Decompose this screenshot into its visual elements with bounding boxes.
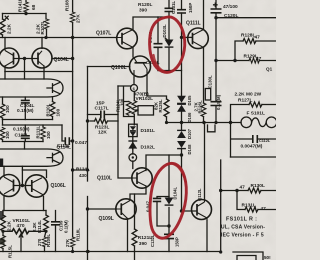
svg-text:Q104L: Q104L (54, 57, 69, 63)
wire bottom-right piece (233, 252, 263, 260)
wire ellipse2 diode column (168, 155, 170, 252)
wire bottom bus (0, 251, 221, 253)
svg-text:C117L: C117L (95, 106, 109, 112)
svg-text:Q109L: Q109L (99, 216, 114, 222)
transistor Q103 (0, 48, 19, 68)
wire Q109 emitter (127, 219, 129, 252)
transistor Q111L (188, 28, 209, 49)
resistor R141L (68) top edge (24, 2, 29, 12)
svg-text:2.2K: 2.2K (7, 23, 13, 34)
svg-text:R115L: R115L (8, 245, 13, 258)
svg-text:R125L: R125L (158, 99, 163, 112)
wire y=17.7 to right edge (216, 17, 276, 19)
wire emitter bus y=71.5 (5, 71, 73, 73)
wire vertical from top edge into R141L (25, 0, 27, 2)
wire base node to Q105/Q106 (14, 185, 32, 187)
resistor R125L 82K (164, 99, 169, 117)
wire bottom link y=70.5 (158, 70, 182, 72)
node Q111 base junction (180, 36, 183, 39)
resistor 2.2K lower-left (1, 215, 6, 231)
diode D108 (177, 141, 186, 149)
svg-text:Q1: Q1 (266, 67, 273, 72)
svg-text:0.15(M): 0.15(M) (13, 126, 30, 132)
wire Q104 collector stub (41, 38, 43, 49)
svg-text:C131L: C131L (171, 1, 176, 14)
wire hanging verticals to bottom edge (134, 252, 136, 260)
wire rail x=220.7 (220, 160, 222, 252)
resistor R111L 100 (41, 127, 46, 139)
svg-text:R130L: R130L (251, 183, 265, 189)
wire stubs into stadium1 top (5, 72, 44, 80)
wire stadium2 bottom to Q105/Q106 (3, 166, 5, 175)
resistor R114L 2.2K (44, 215, 49, 231)
node dot R127L at bus (229, 121, 232, 124)
svg-text:VR102L: VR102L (136, 96, 154, 102)
svg-text:R126L: R126L (198, 100, 203, 113)
wire R128L row (235, 41, 276, 61)
svg-text:R141L: R141L (17, 0, 22, 12)
transistor Q107L (117, 28, 138, 49)
wire R108L rail top (72, 0, 74, 12)
bottom-right small partial boxes (237, 256, 256, 260)
wire from base node down to stadium1 (24, 59, 26, 80)
capacitor C112L 0.0047M (253, 135, 257, 143)
wire pin6 to R124L (133, 92, 135, 101)
svg-text:Q112L: Q112L (197, 188, 202, 201)
rail x=72.6 full height (72, 22, 74, 251)
diode D103L tail mark (165, 38, 168, 41)
wire C109 lead (55, 211, 57, 252)
resistor 2.2K left (0, 19, 5, 35)
capacitor C130L 0.15M (211, 102, 222, 106)
resistor R123L 12K (95, 119, 108, 124)
svg-text:F S101L: F S101L (247, 110, 265, 116)
svg-text:R107L: R107L (40, 21, 45, 35)
wire Q111 base (182, 36, 192, 38)
capacitor C120L electrolytic (211, 9, 222, 13)
svg-text:D102L: D102L (141, 145, 155, 151)
left-edge scan marks (0, 159, 3, 167)
svg-text:150P: 150P (175, 237, 180, 247)
pin terminal 6 (131, 85, 138, 92)
node diode column crossings (180, 121, 183, 124)
wire R130L row (221, 190, 276, 192)
transistor element inside stadium 2 (47, 152, 60, 164)
wire Q111 emitter down to R126L (203, 48, 205, 104)
svg-text:150P: 150P (188, 3, 193, 13)
svg-text:D108: D108 (187, 144, 192, 155)
svg-text:R120L: R120L (138, 2, 152, 8)
wire R125L leads (147, 96, 167, 123)
svg-text:C114L: C114L (57, 143, 70, 148)
transistor Q106L (25, 175, 47, 197)
resistor R127L 2.2K MO 2W (249, 102, 262, 107)
wire D101-D102-pin-Q110 chain (132, 136, 134, 169)
node dot VR101L left (1, 230, 4, 233)
wire loop around R124L (118, 86, 134, 117)
wire D103L column (168, 0, 170, 71)
red ellipse 1 around D103L (150, 17, 185, 72)
node dot between bases (23, 57, 26, 60)
resistor R121L 390 (132, 229, 137, 246)
svg-text:R128L: R128L (241, 33, 255, 39)
wire base bus y=37.5 (0, 37, 117, 39)
wire lower 2.2K leads (3, 211, 46, 252)
transistor Q109L (116, 199, 136, 219)
svg-text:27K: 27K (65, 238, 70, 247)
wire Q108 emitter (146, 76, 148, 97)
diode D102L (128, 141, 137, 149)
resistor 100 (left, row1) (0, 104, 5, 118)
node dot R125L bottom (165, 121, 168, 124)
wire bus y=210.5 (3, 210, 46, 212)
svg-text:390: 390 (139, 7, 147, 13)
svg-text:47: 47 (255, 35, 261, 41)
wire Q110 emitter path (135, 186, 147, 252)
wire R127L left lead (231, 105, 250, 123)
capacitor 150P (177, 10, 186, 13)
wire R126L bottom (203, 117, 205, 123)
transistor element inside stadium 1 (47, 82, 60, 94)
wire Q107 emitter down to Q108 (132, 48, 134, 58)
svg-text:R110L: R110L (45, 103, 50, 116)
node dot rail at bottom bus (219, 250, 222, 253)
diode D103L (165, 40, 174, 48)
wire row2 bus y=144 (3, 141, 44, 143)
resistor R109L 270 (42, 237, 47, 247)
svg-text:R118L: R118L (76, 228, 81, 241)
wire C118L drop (157, 17, 159, 71)
svg-text:0.15(M): 0.15(M) (17, 108, 34, 114)
wire Q112 emitter down (206, 221, 208, 252)
wire rail x=88 (87, 67, 89, 182)
svg-text:C132L: C132L (150, 234, 155, 247)
svg-text:Q110L: Q110L (97, 176, 112, 182)
wire right branch down to R107L (45, 14, 47, 20)
node dot R130L/R131L junction (235, 189, 238, 192)
red ellipse 2 around lower diodes (150, 163, 186, 238)
wire Q104 emitter stub (43, 66, 45, 72)
resistor R130L 47 (248, 188, 261, 193)
svg-text:Q111L: Q111L (186, 21, 201, 27)
resistor R108L 27K (70, 12, 75, 22)
capacitor C104L (21, 100, 30, 103)
svg-text:100: 100 (5, 131, 10, 139)
svg-text:D106: D106 (187, 112, 192, 123)
svg-text:47: 47 (261, 206, 267, 212)
svg-text:R131L: R131L (242, 203, 256, 209)
scan mark x (5, 16, 8, 19)
node dot rail x=87.5 at bus (86, 250, 89, 253)
wire Q108 base (88, 66, 130, 68)
svg-text:C105L: C105L (15, 133, 29, 139)
svg-text:390: 390 (139, 241, 147, 247)
wire h y=155 into Q110 collector (146, 155, 182, 171)
wire R127L right lead (262, 104, 276, 106)
svg-text:0.0047(M): 0.0047(M) (241, 144, 263, 150)
pin terminal (dot) (129, 154, 137, 162)
wire Q111 collector up (203, 0, 205, 30)
wire Q109 collector (130, 194, 135, 200)
node dot VR101L right (44, 230, 47, 233)
wire bracket cap C119 (157, 197, 169, 227)
resistor R128L 47 (243, 39, 256, 44)
wire C114L row y=141 (62, 125, 73, 141)
svg-text:UL, CSA Version-: UL, CSA Version- (221, 225, 265, 231)
wire Q103 emitter stub (4, 66, 6, 72)
capacitor C114L 0.047 (65, 137, 69, 145)
wire collector jog Q106 (22, 170, 46, 178)
wire Q112 base (182, 210, 198, 212)
wire C120L rail x=216 (215, 0, 217, 123)
diode D105 (177, 96, 186, 104)
wire Q107 collector up and top wire y=17 (133, 17, 169, 30)
svg-text:R127L: R127L (238, 97, 252, 103)
resistor R110L 100 (50, 102, 55, 117)
svg-text:47: 47 (240, 185, 246, 191)
transistor Q104L (32, 48, 52, 68)
wire row1 bottom bus (3, 119, 53, 121)
svg-text:47: 47 (256, 56, 262, 62)
dual-package stadium 2 (0, 149, 63, 166)
svg-text:R114L: R114L (37, 220, 42, 233)
wire below R107L (46, 29, 48, 37)
svg-text:FS101L R :: FS101L R : (226, 217, 257, 223)
wire C112L branch (231, 123, 277, 158)
node junction dot at (26,13.5) (24, 12, 27, 15)
svg-text:R111L: R111L (36, 125, 41, 138)
wire stadium1 bottom leads (3, 97, 53, 120)
fuse FS101L (241, 117, 277, 128)
resistor R118L 27K on rail (70, 237, 75, 247)
wire h y=170 between rails (73, 169, 88, 171)
wire C117L/R123L left leads (88, 115, 101, 122)
svg-text:0.1(M): 0.1(M) (64, 220, 69, 233)
capacitor C118L 0.047 (154, 44, 163, 48)
wire 150P column / D105-D108 rail (181, 0, 183, 211)
wire R131L row (237, 191, 276, 210)
svg-text:100: 100 (120, 98, 125, 106)
svg-text:R109L: R109L (46, 234, 51, 247)
transistor Q112 (192, 200, 212, 221)
wire VR102L bottom to D101 chain (134, 110, 138, 125)
svg-text:100: 100 (5, 105, 10, 113)
capacitor C105L (21, 136, 30, 139)
wire R115L lower lead (2, 249, 4, 252)
node dot rail crossing (71, 36, 74, 39)
svg-text:2.2K M0 2W: 2.2K M0 2W (235, 92, 262, 98)
resistor R131L 47 (245, 207, 258, 212)
resistor R124L 100 (126, 102, 131, 116)
svg-text:270: 270 (37, 238, 42, 246)
svg-text:Q106L: Q106L (51, 183, 66, 189)
wire bus y=122.5 (167, 122, 242, 124)
svg-text:430: 430 (79, 173, 87, 178)
wire Q112 collector up (204, 123, 206, 200)
svg-text:D107: D107 (187, 128, 192, 139)
resistor R129L 47 (249, 58, 259, 63)
transistor Q108L (130, 56, 151, 78)
dual-package stadium 1 (0, 79, 63, 97)
svg-text:D101L: D101L (141, 128, 155, 134)
node dot R107L bottom (44, 36, 47, 39)
svg-text:Q107L: Q107L (96, 31, 111, 37)
wire left branch down (2, 14, 4, 20)
svg-text:C120L: C120L (224, 13, 238, 19)
capacitor C109 0.1(M) (51, 222, 60, 225)
wire base link Q103-Q104 (14, 58, 39, 60)
svg-text:100: 100 (46, 131, 51, 139)
svg-text:IEC Version - F 5: IEC Version - F 5 (221, 233, 264, 239)
wire Q109 base (88, 208, 117, 210)
wire stub into stadium2 top (24, 142, 26, 150)
svg-text:C112L: C112L (259, 139, 271, 143)
svg-text:47/100: 47/100 (223, 4, 238, 10)
wire Q103 collector stub (4, 38, 6, 49)
diode D107 (177, 130, 186, 138)
diode block D101L (129, 124, 138, 136)
capacitor C117L 15P (101, 111, 105, 119)
wire second bus y=125 (3, 124, 63, 126)
svg-text:C130L: C130L (207, 75, 212, 88)
svg-text:100: 100 (55, 108, 60, 116)
node dot C130L rail at bus (214, 121, 217, 124)
resistor 100 (left, row2) (0, 128, 5, 140)
capacitor C132L 150P (164, 234, 174, 238)
svg-text:0.15(M): 0.15(M) (216, 94, 221, 110)
trimmer VR102L element (132, 101, 137, 115)
wire Q105/Q106 emitters down (4, 196, 44, 211)
svg-text:50!: 50! (264, 255, 271, 260)
wire below 2.2K left (2, 35, 4, 38)
potentiometer VR101L (12, 229, 29, 234)
svg-text:Q10 8L: Q10 8L (111, 65, 127, 71)
node dot rail at R130L row (219, 189, 222, 192)
resistor R115L bottom left (1, 236, 6, 249)
svg-text:0.047: 0.047 (75, 140, 87, 146)
diode D110 in red circle 2 (165, 198, 174, 206)
transistor Q110L (132, 168, 152, 188)
node dot (169,226) (167, 224, 170, 227)
wire row2 resistor/cap leads (3, 125, 44, 142)
wire Q104 right to rail (52, 58, 73, 60)
wire y=157 to edge (231, 156, 277, 158)
svg-text:D105: D105 (187, 95, 192, 106)
capacitor C131L (165, 8, 174, 11)
resistor R126L 2.7K (201, 103, 206, 117)
svg-text:68: 68 (31, 4, 37, 10)
svg-text:D103L: D103L (162, 24, 167, 37)
diode D106 (177, 104, 186, 112)
capacitor C119 bracket plates (153, 198, 161, 201)
svg-text:470: 470 (17, 223, 25, 229)
wire R129L row (216, 60, 276, 62)
node dot R128L drop at R129L row (233, 59, 236, 62)
wire right node of RC down to Q110 base (118, 86, 132, 178)
svg-text:12K: 12K (98, 129, 107, 135)
transistor Q105 (0, 175, 20, 197)
wire top-left horizontal bus (3, 13, 47, 15)
svg-text:D104L: D104L (172, 186, 177, 199)
wire Q108 emitter to pin6 (133, 78, 135, 85)
svg-text:R108L: R108L (64, 0, 69, 11)
resistor R107L 2.2K (44, 19, 49, 29)
svg-text:27K: 27K (75, 14, 81, 23)
